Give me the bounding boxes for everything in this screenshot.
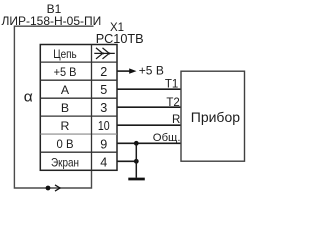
svg-text:Т1: Т1 <box>165 79 178 91</box>
connector table frame X1 <box>40 45 117 171</box>
svg-text:3: 3 <box>100 101 107 115</box>
svg-text:10: 10 <box>98 119 110 133</box>
svg-text:ЛИР-158-Н-05-ПИ: ЛИР-158-Н-05-ПИ <box>2 14 102 28</box>
svg-text:Т2: Т2 <box>166 97 179 109</box>
table row line under header <box>40 61 117 63</box>
wire R <box>118 124 182 126</box>
svg-text:Цепь: Цепь <box>53 47 77 61</box>
junction dot 0V/ground <box>134 141 139 146</box>
wire 0V to Общ <box>118 142 182 144</box>
junction dot shield <box>134 159 139 164</box>
ground wire vertical <box>135 143 137 177</box>
wire B to T2 <box>118 106 182 108</box>
table row line under B <box>40 115 117 117</box>
svg-text:2: 2 <box>100 65 107 79</box>
svg-text:Экран: Экран <box>51 155 79 169</box>
table row line under 0V <box>40 151 117 153</box>
svg-text:А: А <box>61 83 70 97</box>
white backing for РС10ТВ label <box>94 32 145 44</box>
svg-text:Прибор: Прибор <box>191 109 240 125</box>
svg-text:α: α <box>24 90 33 106</box>
svg-text:0 В: 0 В <box>57 137 74 151</box>
ground bar (earth symbol) <box>128 178 145 181</box>
svg-text:5: 5 <box>100 83 107 97</box>
wire +5V from pin 2 <box>118 70 130 72</box>
chassis connection dot <box>46 186 51 191</box>
svg-text:9: 9 <box>100 137 107 151</box>
svg-text:R: R <box>172 114 180 126</box>
table row line under R <box>40 133 117 135</box>
wire A to T1 <box>118 88 182 90</box>
wire Экран (shield) <box>118 160 137 162</box>
svg-text:+5 В: +5 В <box>54 65 77 79</box>
svg-text:В: В <box>61 101 69 115</box>
header connector pin symbol >> <box>94 48 115 59</box>
instrument box Прибор <box>181 71 245 161</box>
svg-text:4: 4 <box>100 155 107 169</box>
chassis connection arrow <box>55 185 60 191</box>
table column divider <box>91 45 93 171</box>
svg-text:+5 В: +5 В <box>139 64 164 78</box>
encoder device box B1 (case outline with chassis wire) <box>14 26 93 188</box>
table row line under A <box>40 97 117 99</box>
arrowhead +5V <box>129 68 136 73</box>
svg-text:Общ.: Общ. <box>153 132 181 144</box>
svg-text:R: R <box>61 119 70 133</box>
table row line under +5V <box>40 79 117 81</box>
